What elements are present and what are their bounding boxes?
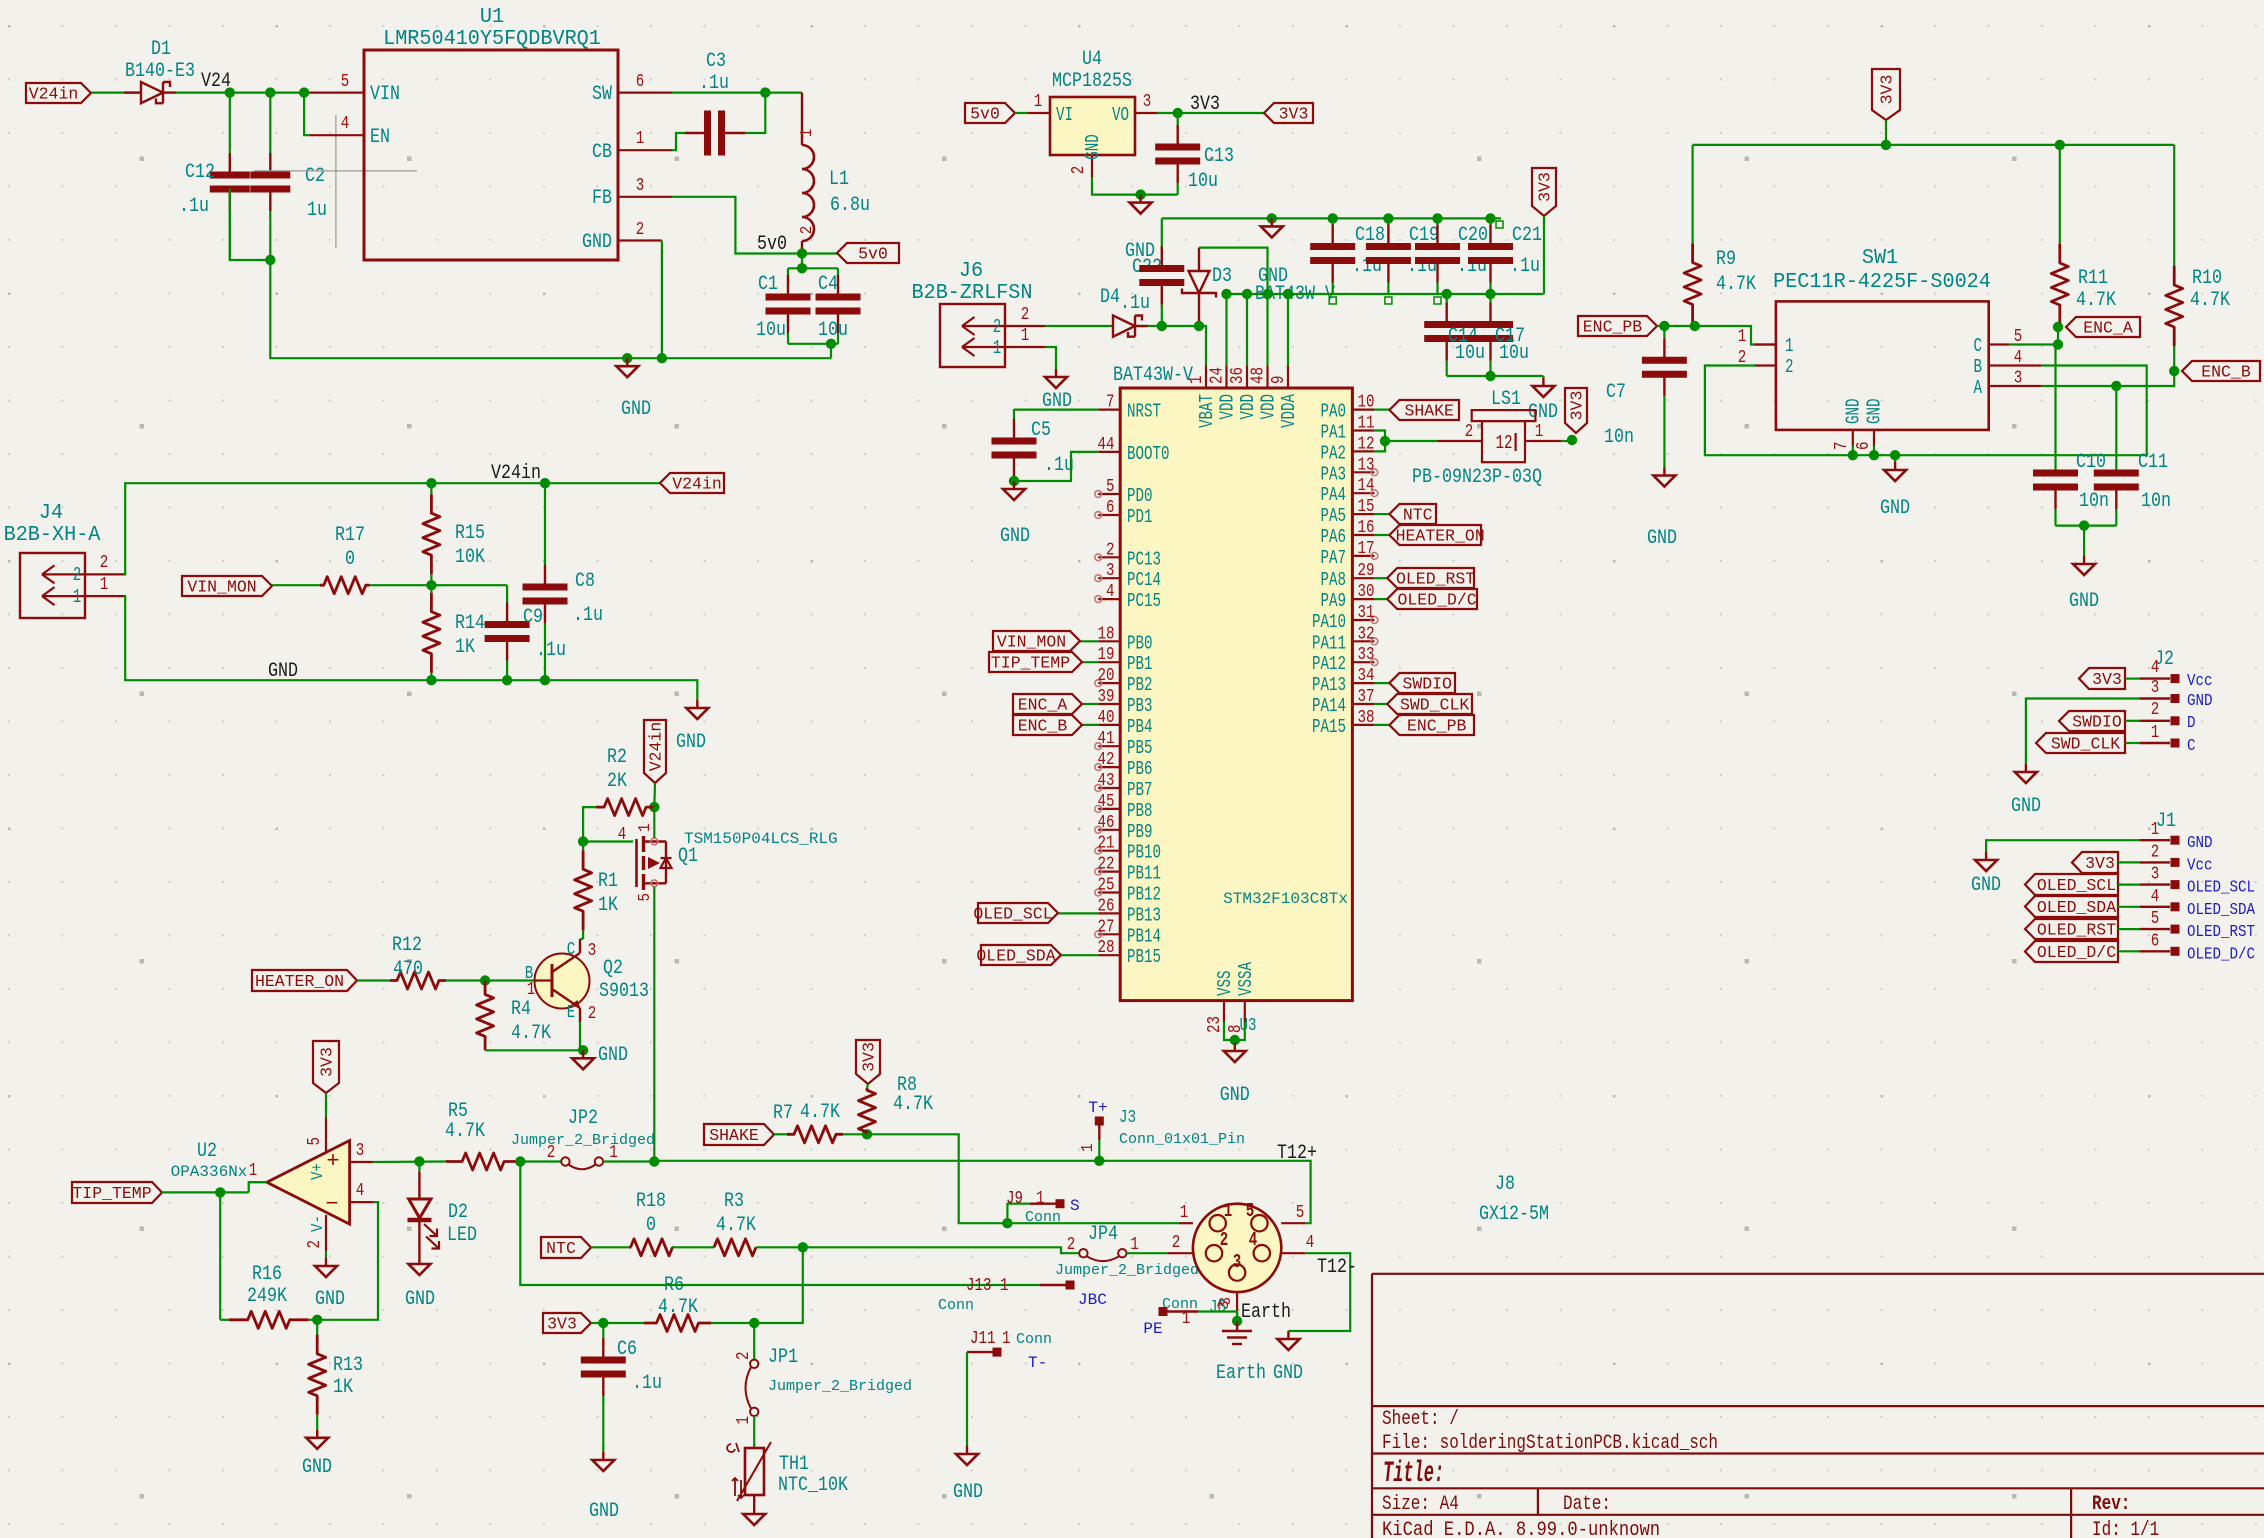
svg-text:1: 1 [1187,376,1207,385]
J2 pin 1 C [2139,742,2170,744]
svg-text:Date:: Date: [1563,1493,1611,1516]
IC U4 MCP1825S [1050,97,1135,155]
ground symbol GND (J1) [1985,852,1987,860]
svg-text:GND: GND [2011,795,2041,818]
svg-text:Q2: Q2 [603,957,623,980]
svg-text:4: 4 [618,825,627,845]
svg-text:3V3: 3V3 [2092,670,2122,689]
svg-text:7: 7 [1106,393,1115,413]
svg-text:KiCad E.D.A. 8.99.0-unknown: KiCad E.D.A. 8.99.0-unknown [1382,1519,1660,1538]
svg-text:ENC_B: ENC_B [2201,363,2251,382]
J1 pin 1 GND [2139,839,2170,841]
svg-text:1: 1 [249,1161,258,1181]
wire feedback down [219,1192,221,1319]
junction [2055,140,2065,150]
svg-text:27: 27 [1098,917,1115,937]
svg-text:3: 3 [1215,1300,1233,1310]
svg-text:R4: R4 [511,998,531,1021]
svg-text:2: 2 [73,564,82,586]
svg-text:SHAKE: SHAKE [709,1126,759,1145]
svg-text:V24in: V24in [672,475,722,494]
junction [1890,450,1900,460]
svg-text:PA0: PA0 [1321,401,1347,423]
wire node to C9 [431,584,507,586]
svg-text:1: 1 [1034,92,1043,112]
ground symbol (J6) [1055,369,1057,377]
junction Q1 drain [649,1156,659,1166]
wire EN to V24 [304,93,310,136]
crosshair cursor artifact [254,115,417,248]
wire NRST to C5 [1014,408,1098,411]
junction gate [578,836,588,846]
svg-text:1: 1 [1002,1329,1011,1349]
svg-text:GND: GND [1082,134,1104,160]
wire J11 to gnd [966,1352,968,1446]
svg-text:33: 33 [1358,645,1375,665]
wire PA1/PA2 to LS1 [1374,431,1385,452]
svg-text:D4: D4 [1100,286,1120,309]
junction R2 right [649,802,659,812]
wire main run to J3/T12+ [654,1161,1310,1223]
wire to gnd rail [830,344,832,358]
svg-text:ENC_A: ENC_A [1018,696,1068,715]
svg-text:PA11: PA11 [1312,632,1346,654]
svg-text:Conn_01x01_Pin: Conn_01x01_Pin [1119,1131,1245,1148]
svg-text:4: 4 [1249,1229,1258,1251]
svg-text:STM32F103C8Tx: STM32F103C8Tx [1223,890,1348,908]
svg-text:4: 4 [2014,348,2023,368]
svg-text:16: 16 [1358,518,1375,538]
svg-text:18: 18 [1098,624,1115,644]
wire FB to 5v0 node [672,197,802,254]
svg-text:Jumper_2_Bridged: Jumper_2_Bridged [768,1378,912,1395]
svg-text:PB8: PB8 [1127,800,1153,822]
junction [578,1045,588,1055]
svg-text:3V3: 3V3 [547,1315,577,1334]
svg-text:6: 6 [2151,931,2160,951]
svg-text:4: 4 [356,1181,365,1201]
svg-text:2: 2 [1785,356,1794,378]
svg-text:Jumper_2_Bridged: Jumper_2_Bridged [511,1132,655,1149]
svg-text:GND: GND [302,1456,332,1479]
svg-text:GND: GND [1220,1084,1250,1107]
svg-text:5: 5 [2151,909,2160,929]
svg-text:C: C [567,940,576,960]
svg-text:V24in: V24in [647,722,666,772]
svg-text:Jumper_2_Bridged: Jumper_2_Bridged [1055,1262,1199,1279]
svg-text:E: E [567,1003,576,1023]
wire J6 pin1 to gnd [1045,347,1056,369]
svg-text:OLED_SCL: OLED_SCL [973,905,1052,924]
wire source to V24in node [653,807,655,838]
svg-text:B2B-XH-A: B2B-XH-A [4,523,101,547]
junction [1881,140,1891,150]
wire ENC_A node to pin C [2009,327,2058,345]
wire J1.1 to gnd [1986,840,2139,852]
svg-text:2: 2 [798,226,817,235]
svg-text:R1: R1 [598,870,618,893]
svg-text:Conn: Conn [1025,1209,1061,1226]
capacitor C2 [269,93,271,153]
svg-text:29: 29 [1358,561,1375,581]
SW1 pin 4 B [1989,364,2041,366]
svg-text:C3: C3 [706,50,726,73]
svg-text:17: 17 [1358,539,1375,559]
svg-text:R14: R14 [455,612,485,635]
junction R14 bottom [426,675,436,685]
svg-text:3V3: 3V3 [1878,75,1897,105]
svg-text:T+: T+ [1088,1099,1107,1117]
wire NTC node down to R6 [754,1247,803,1323]
hier label 3V3 (R6) [543,1313,591,1333]
svg-text:GND: GND [1843,399,1865,425]
svg-text:GND: GND [2187,834,2213,853]
svg-text:4.7K: 4.7K [800,1101,840,1124]
transistor Q2 S9013 (NPN) [535,954,590,1009]
wire D4 to VBAT [1148,326,1206,366]
svg-text:R18: R18 [636,1190,666,1213]
resistor R9 4.7K [1691,241,1693,244]
wire R3 to node [756,1246,803,1248]
J8 pin 2 [1168,1252,1193,1254]
svg-text:T12+: T12+ [1277,1142,1317,1165]
hierarchical label 3V3 (rails) [1532,168,1556,216]
svg-text:1K: 1K [598,894,618,917]
wire C14 C17 bottom [1447,375,1544,377]
ground symbol GND (pin2) [325,1251,327,1258]
svg-text:CB: CB [592,141,612,164]
SW1 pin 1 [1754,343,1776,345]
svg-text:VSS: VSS [1214,971,1236,997]
hier label OLED_SCL (PB13) [1058,912,1098,914]
svg-text:GND: GND [598,1044,628,1067]
svg-text:V+: V+ [309,1163,328,1180]
svg-text:OLED_RST: OLED_RST [2037,921,2116,940]
svg-text:GND: GND [953,1481,983,1504]
svg-text:PD0: PD0 [1127,485,1153,507]
wire SHAKE to R7 [774,1133,787,1135]
wire pin B to gnd loop [1908,366,2147,456]
J2 pin 3 GND [2139,697,2170,699]
earth ground symbol [1236,1321,1238,1331]
wire TIP_TEMP to out [162,1191,249,1193]
J1 pin 3 OLED_SCL [2139,883,2170,885]
svg-text:1: 1 [2151,723,2160,743]
J6 pin 1 [1005,346,1045,348]
wire C10 C11 bottom [2056,524,2117,526]
svg-text:OLED_D/C: OLED_D/C [1397,591,1476,610]
svg-text:OPA336Nx: OPA336Nx [171,1163,248,1181]
wire ENC_PB node [1657,326,1776,345]
svg-text:C1: C1 [758,273,778,296]
wire J2.3 to gnd [2026,699,2139,765]
junction R16/R13 [312,1315,322,1325]
wire 3V3 to J2.4 [2125,677,2139,679]
svg-text:U1: U1 [480,5,504,29]
svg-text:PB10: PB10 [1127,842,1161,864]
ground symbol GND (J11) [966,1446,968,1454]
wire end markers (rail2) [1329,297,1336,304]
svg-text:PA5: PA5 [1321,505,1347,527]
svg-text:PA10: PA10 [1312,611,1346,633]
diode D2 LED [418,1162,420,1173]
svg-text:B2B-ZRLFSN: B2B-ZRLFSN [912,281,1033,305]
svg-text:SWDIO: SWDIO [2072,713,2122,732]
svg-text:D: D [2187,714,2196,733]
resistor R14 1K [430,585,432,593]
hier label 3V3 (J1) [2072,852,2118,873]
hier label ENC_B (encoder) [2182,361,2260,381]
svg-text:4: 4 [2151,887,2160,907]
svg-text:3: 3 [1143,92,1152,112]
svg-text:3: 3 [2014,369,2023,389]
J4 pin 2 [85,573,124,575]
svg-text:VDDA: VDDA [1278,394,1300,428]
svg-text:SWDIO: SWDIO [1402,675,1452,694]
junction D2 [414,1156,424,1166]
svg-text:5v0: 5v0 [858,245,888,264]
transistor Q1 TSM150P04LCS_RLG (P-MOSFET) [635,839,638,887]
svg-text:VO: VO [1112,104,1129,126]
svg-text:37: 37 [1358,687,1375,707]
svg-text:C6: C6 [617,1338,637,1361]
jumper JP1 Jumper_2_Bridged (vertical) [753,1323,755,1359]
junction C7 tap [1659,321,1669,331]
svg-text:R7: R7 [773,1102,793,1125]
svg-text:ENC_B: ENC_B [1018,717,1068,736]
svg-text:19: 19 [1098,645,1115,665]
svg-text:3V3: 3V3 [1536,172,1555,202]
junction D3 bottom [1194,321,1204,331]
svg-text:C8: C8 [575,570,595,593]
svg-text:44: 44 [1098,435,1115,455]
svg-text:11: 11 [1358,414,1375,434]
capacitor C13 10u [1177,113,1179,125]
svg-text:5: 5 [305,1137,325,1146]
hier label TIP_TEMP (op-amp) [72,1182,162,1203]
svg-text:3V3: 3V3 [1190,93,1220,116]
capacitor C3 (horizontal) [685,132,705,134]
wire SW to C3/L1 [672,91,802,93]
ground symbol GND (buck) [626,358,628,366]
hier label OLED_SDA (PB15) [1061,954,1098,956]
resistor R12 470 [390,972,446,989]
svg-text:JP1: JP1 [768,1346,798,1369]
svg-text:LED: LED [447,1224,477,1247]
svg-text:A: A [1974,377,1983,399]
svg-text:3: 3 [1233,1251,1242,1273]
resistor R11 4.7K [2059,241,2061,244]
svg-text:NTC_10K: NTC_10K [778,1474,848,1497]
capacitor C20 [1436,218,1438,224]
VDD vertical wires [1225,294,1227,366]
capacitor C21 [1489,218,1491,224]
svg-text:23: 23 [1205,1016,1225,1033]
svg-text:OLED_RST: OLED_RST [1396,570,1475,589]
svg-text:1K: 1K [455,636,475,659]
svg-text:3: 3 [2151,678,2160,698]
wire drain down [653,887,655,1161]
connector J4 B2B-XH-A [20,553,85,618]
wire V24in to D1 [91,91,141,93]
wire HEATER_ON to R12 [357,979,390,981]
svg-text:.1u: .1u [632,1372,662,1395]
wire 5v0 node to label [802,252,837,254]
resistor R15 10K [430,483,432,494]
svg-text:1: 1 [1180,1203,1189,1223]
svg-text:6: 6 [1106,498,1115,518]
thermistor TH1 NTC_10K [745,1448,764,1495]
capacitor C9 .1u [506,585,508,602]
svg-text:D3: D3 [1212,265,1232,288]
svg-text:OLED_SCL: OLED_SCL [2037,876,2116,895]
hier label TIP_TEMP (PB1) [1082,661,1098,663]
resistor R13 1K [316,1320,318,1335]
hier label OLED_D/C (J1) [2025,941,2118,962]
wire caps bottom join [788,343,838,345]
MCU U3 STM32F103C8Tx [1120,388,1352,1001]
wire 3V3 to C6/R6 [591,1322,644,1324]
wire D3 top to 3V3 rail [1199,248,1268,294]
svg-text:1: 1 [1182,1309,1191,1329]
svg-text:6: 6 [1854,442,1874,451]
svg-text:PA9: PA9 [1321,590,1347,612]
svg-text:1: 1 [993,337,1002,359]
svg-text:36: 36 [1228,367,1248,384]
capacitor C19 [1387,218,1389,224]
svg-text:2: 2 [993,316,1002,338]
svg-text:GND: GND [1880,497,1910,520]
svg-text:Earth: Earth [1241,1301,1291,1324]
svg-text:T-: T- [1028,1354,1047,1372]
svg-text:C5: C5 [1031,419,1051,442]
svg-text:3: 3 [588,941,597,961]
ground symbol GND (C10/C11) [2083,526,2085,556]
junction EN branch [299,87,309,97]
junction gnd rail 1 [622,353,632,363]
svg-text:31: 31 [1358,603,1375,623]
J4 pin 1 [85,595,124,597]
svg-text:D1: D1 [151,38,171,61]
svg-text:V24in: V24in [29,85,79,104]
wire J8 pin4 to gnd [1288,1253,1350,1331]
svg-text:EN: EN [370,126,390,149]
svg-text:1: 1 [1535,422,1544,442]
hier label 3V3 (J2) [2079,668,2125,689]
junction NTC node [798,1242,808,1252]
svg-text:1: 1 [2151,820,2160,840]
junction gnd rail 2 [657,353,667,363]
svg-text:Id: 1/1: Id: 1/1 [2092,1519,2159,1538]
junction C22 bottom [1157,321,1167,331]
capacitor C8 .1u [544,483,546,565]
hierarchical label V24in (right) [660,473,724,493]
svg-text:PC14: PC14 [1127,569,1161,591]
svg-text:4.7K: 4.7K [1716,273,1756,296]
SW1 pin 3 A [1989,385,2041,387]
wire 5v0 to U4 [1015,112,1028,114]
svg-text:Sheet: /: Sheet: / [1382,1408,1459,1431]
inductor L1 6.8u [801,93,803,145]
svg-text:PA1: PA1 [1321,422,1347,444]
wire NTC node to JP4 [803,1247,1079,1253]
ground symbol GND (C14/C17) [1542,376,1544,378]
pin 1 CB [618,149,672,151]
single pin J13 Conn [1040,1284,1066,1286]
svg-text:6.8u: 6.8u [830,194,870,217]
svg-text:R12: R12 [392,934,422,957]
svg-text:.1u: .1u [1510,255,1540,278]
single pin J9 Conn [1007,1204,1030,1224]
svg-text:JP4: JP4 [1088,1223,1118,1246]
wire C12 C2 bottom join [230,188,270,260]
resistor R18 0 [631,1239,673,1256]
svg-text:Conn: Conn [1016,1331,1052,1348]
svg-text:C13: C13 [1204,145,1234,168]
wire NTC to R18 [591,1246,631,1248]
svg-text:VDD: VDD [1258,394,1280,420]
svg-text:4.7K: 4.7K [658,1296,698,1319]
svg-text:PB2: PB2 [1127,674,1153,696]
svg-text:34: 34 [1358,666,1375,686]
wire J6 pin2 to D4 [1045,325,1113,327]
wire R2 left to gate node [583,807,633,841]
gnd rail (top) [1162,217,1501,219]
svg-text:2: 2 [1106,540,1115,560]
svg-text:VI: VI [1056,104,1073,126]
J8 pin 3 [1236,1292,1238,1315]
svg-text:OLED_SDA: OLED_SDA [2187,901,2256,920]
svg-text:V24in: V24in [491,462,541,485]
svg-text:1: 1 [1000,1276,1009,1296]
svg-text:PEC11R-4225F-S0024: PEC11R-4225F-S0024 [1773,270,1991,294]
svg-text:PA2: PA2 [1321,442,1347,464]
junction caps bottom [826,339,836,349]
wire R1 to collector [580,938,583,940]
MCU right pins [1352,409,1374,411]
svg-text:R9: R9 [1716,248,1736,271]
svg-text:Earth: Earth [1216,1362,1266,1385]
svg-text:470: 470 [393,958,423,981]
hier label SWD_CLK (PA14) [1374,703,1387,705]
svg-text:GND: GND [315,1288,345,1311]
svg-text:10n: 10n [2079,490,2109,513]
junction U4 gnd [1135,189,1145,199]
svg-text:TIP_TEMP: TIP_TEMP [72,1184,151,1203]
single pin J11 Conn [967,1351,993,1353]
junction [1230,1035,1240,1045]
hier label HEATER_ON (PA6) [1374,534,1389,536]
MCU left pins [1098,409,1120,411]
wire J4 pin2 to V24in rail [124,483,660,574]
wire -in loop to R16 node [317,1202,378,1320]
svg-text:7: 7 [1832,442,1852,451]
svg-text:PA6: PA6 [1321,526,1347,548]
svg-text:4.7K: 4.7K [2190,289,2230,312]
ground symbol GND (J2) [2025,764,2027,772]
wire LS1 to 3V3 [1561,440,1574,442]
svg-text:.1u: .1u [179,195,209,218]
svg-text:10n: 10n [2141,490,2171,513]
svg-text:SWD_CLK: SWD_CLK [1400,696,1469,715]
svg-text:V-: V- [309,1215,328,1232]
hierarchical label 5v0 [837,243,899,263]
pin 2 V- [325,1215,327,1251]
svg-text:Title:: Title: [1383,1457,1444,1491]
wire J5 to earth [1198,1312,1237,1322]
svg-text:PB9: PB9 [1127,821,1153,843]
svg-text:Size: A4: Size: A4 [1382,1493,1459,1516]
